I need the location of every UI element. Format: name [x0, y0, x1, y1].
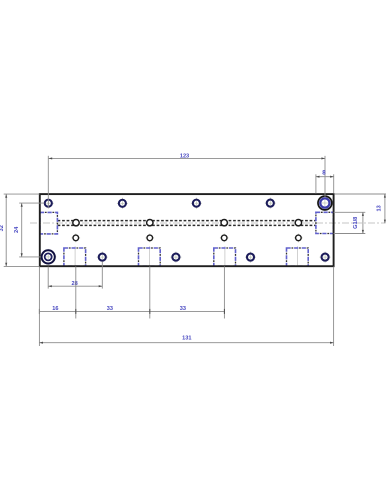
bottom port square 2	[139, 246, 161, 266]
dimension 13 right	[335, 194, 386, 223]
svg-text:33: 33	[107, 306, 113, 312]
dimension 123 top	[48, 156, 325, 208]
svg-text:131: 131	[182, 336, 191, 342]
dimension 32 left	[4, 194, 40, 266]
bottom hole 3	[247, 254, 254, 261]
bottom port square 1	[64, 246, 86, 266]
dimension 28 bottom left	[48, 262, 102, 289]
channel hidden line upper	[58, 220, 316, 222]
top hole 3	[193, 200, 200, 207]
pilot hole row2 4	[296, 235, 302, 241]
channel hole 2	[147, 220, 153, 226]
svg-text:13: 13	[377, 205, 383, 211]
counterbore hole bottom left	[42, 250, 55, 263]
top hole 4	[267, 200, 274, 207]
svg-text:24: 24	[14, 226, 20, 233]
svg-text:123: 123	[180, 153, 189, 159]
channel hole 1	[73, 220, 79, 226]
big port G1/8 top right	[318, 196, 332, 210]
plate outline	[40, 194, 334, 266]
svg-text:32: 32	[0, 225, 5, 231]
svg-text:28: 28	[71, 281, 77, 287]
bottom port square 4	[287, 246, 309, 266]
bottom hole 2	[172, 254, 179, 261]
top hole 2	[119, 200, 126, 207]
channel hidden line lower	[58, 224, 316, 226]
dimension chain 16 33 33	[39, 266, 224, 318]
svg-text:G1/8: G1/8	[353, 217, 359, 229]
dimension 131 bottom	[39, 267, 333, 346]
top hole 1	[45, 200, 52, 207]
pilot hole row2 3	[221, 235, 227, 241]
channel hole 4	[295, 220, 301, 226]
pilot hole row2 1	[73, 235, 79, 241]
dimension 8 top right	[316, 174, 334, 193]
hole center marks	[45, 200, 328, 260]
centerline of channel	[30, 222, 386, 224]
bottom hole 4	[322, 254, 329, 261]
dimension 24 left	[19, 203, 44, 257]
svg-text:33: 33	[180, 306, 186, 312]
dimension G1/8 right	[334, 212, 366, 233]
hole centerline crosses	[40, 195, 333, 265]
bottom port square 3	[214, 246, 236, 266]
bottom hole 1	[99, 254, 106, 261]
pilot hole row2 2	[147, 235, 153, 241]
channel hole 3	[221, 220, 227, 226]
port square left end	[40, 212, 58, 234]
port square right end	[316, 212, 334, 233]
svg-text:16: 16	[52, 306, 58, 312]
